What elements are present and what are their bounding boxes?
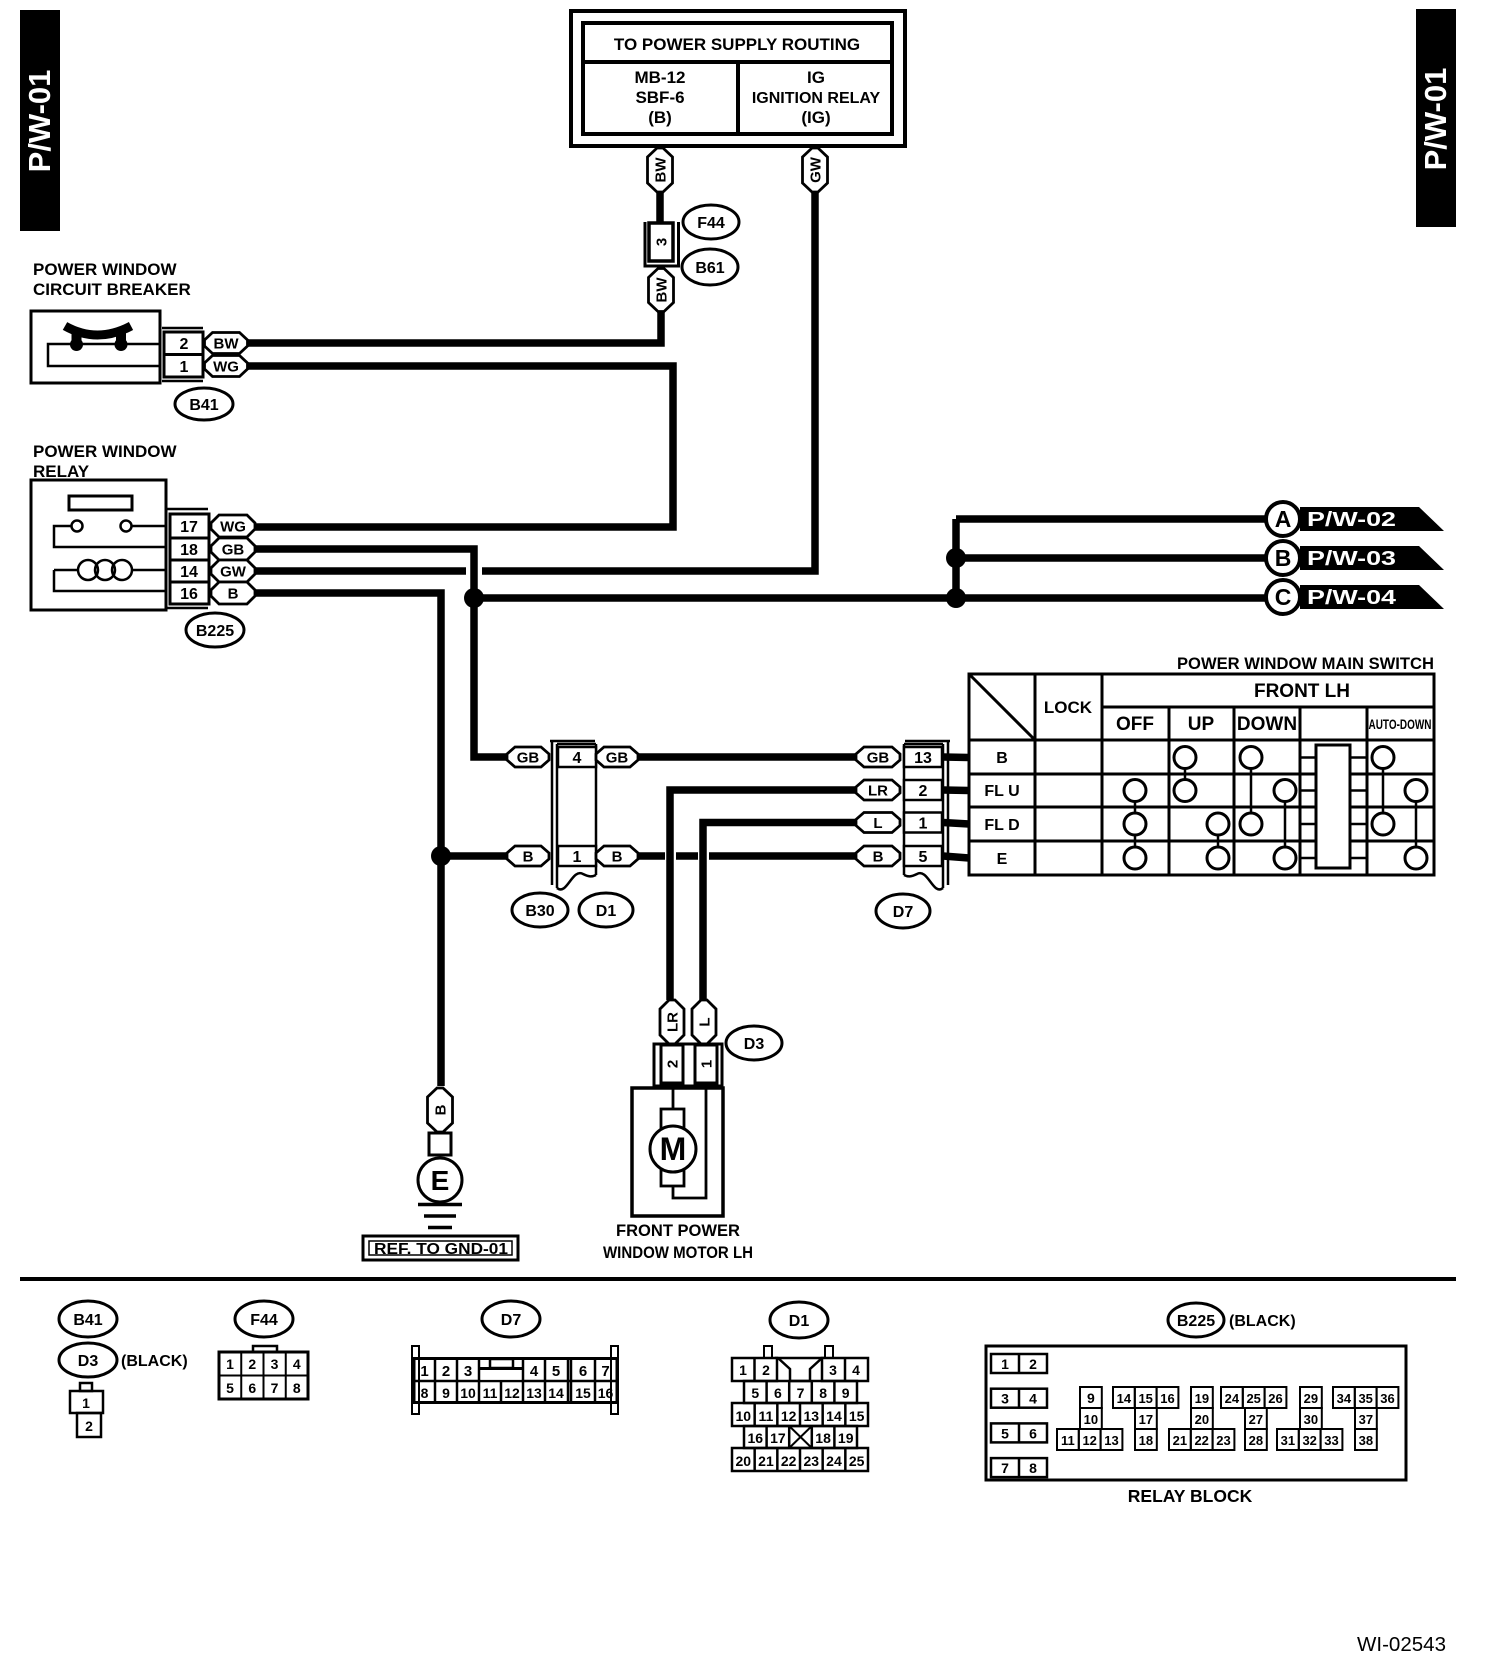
svg-text:P/W-04: P/W-04 bbox=[1307, 587, 1397, 609]
svg-text:D7: D7 bbox=[501, 1312, 522, 1329]
terminal WG relay pin 17 bbox=[211, 515, 255, 537]
svg-text:L: L bbox=[873, 815, 882, 832]
svg-text:7: 7 bbox=[1001, 1460, 1009, 1476]
wire GB branch vertical to banners A and B bbox=[952, 519, 960, 598]
node C to P/W-04 bbox=[1266, 580, 1444, 614]
svg-text:2: 2 bbox=[1029, 1356, 1037, 1372]
svg-text:25: 25 bbox=[849, 1453, 865, 1469]
pinout connector D1 bbox=[732, 1346, 868, 1471]
svg-text:2: 2 bbox=[85, 1418, 93, 1434]
svg-text:1: 1 bbox=[739, 1362, 747, 1378]
svg-text:5: 5 bbox=[919, 849, 928, 866]
svg-text:WINDOW MOTOR LH: WINDOW MOTOR LH bbox=[603, 1243, 753, 1262]
wire stub pin 13 to switch B bbox=[943, 753, 969, 761]
pinout label F44 bbox=[235, 1301, 293, 1337]
switch contact link lines bbox=[1135, 758, 1416, 859]
svg-text:D1: D1 bbox=[789, 1313, 810, 1330]
connector label F44 bbox=[683, 205, 739, 239]
svg-text:P/W-03: P/W-03 bbox=[1307, 548, 1396, 570]
svg-text:14: 14 bbox=[826, 1408, 842, 1424]
svg-text:POWER WINDOW: POWER WINDOW bbox=[33, 442, 177, 461]
terminal LR switch pin 2 bbox=[856, 780, 900, 800]
pinout label B41 bbox=[59, 1301, 117, 1337]
svg-text:SBF-6: SBF-6 bbox=[635, 88, 684, 107]
svg-text:LR: LR bbox=[664, 1012, 681, 1032]
svg-text:11: 11 bbox=[1061, 1433, 1075, 1448]
svg-text:B225: B225 bbox=[196, 623, 234, 640]
connector B30/D1 pin 1 cell bbox=[558, 846, 596, 866]
svg-text:5: 5 bbox=[552, 1363, 560, 1380]
svg-text:26: 26 bbox=[1268, 1391, 1282, 1406]
svg-text:34: 34 bbox=[1337, 1391, 1352, 1406]
connector label B30 bbox=[512, 893, 568, 927]
terminal L motor pin 1 bbox=[692, 1000, 716, 1044]
connector label B41 bbox=[175, 388, 233, 420]
svg-text:8: 8 bbox=[421, 1385, 429, 1401]
svg-text:13: 13 bbox=[1104, 1433, 1118, 1448]
wire B segment from D1 pin 1 bbox=[638, 852, 665, 860]
page label P/W-01 right bbox=[1416, 9, 1456, 227]
terminal BW (supply side) bbox=[648, 148, 673, 192]
svg-text:WG: WG bbox=[220, 518, 246, 535]
fuse 3 (F44/B61) bracket bbox=[645, 222, 679, 266]
svg-text:17: 17 bbox=[770, 1430, 786, 1446]
svg-text:F44: F44 bbox=[250, 1312, 278, 1329]
svg-text:IG: IG bbox=[807, 68, 825, 87]
svg-text:20: 20 bbox=[736, 1453, 752, 1469]
svg-text:4: 4 bbox=[852, 1362, 860, 1378]
terminal WG circuit breaker pin 1 bbox=[205, 356, 248, 377]
svg-text:22: 22 bbox=[781, 1453, 797, 1469]
svg-text:P/W-01: P/W-01 bbox=[22, 70, 57, 173]
terminal B at D1 pin 1 (right) bbox=[596, 846, 638, 866]
svg-text:B: B bbox=[996, 750, 1008, 767]
wire B branch to connector B30 pin 1 bbox=[441, 852, 507, 860]
svg-text:9: 9 bbox=[1087, 1390, 1095, 1406]
svg-text:16: 16 bbox=[1160, 1391, 1174, 1406]
wire BW from fuse to circuit breaker pin 2 bbox=[247, 311, 661, 343]
svg-text:8: 8 bbox=[819, 1385, 827, 1401]
relay connector frame pins 17/18/14/16 bbox=[167, 509, 209, 608]
relay block pinout box bbox=[986, 1346, 1406, 1480]
svg-text:AUTO-DOWN: AUTO-DOWN bbox=[1369, 716, 1432, 732]
svg-text:POWER WINDOW: POWER WINDOW bbox=[33, 260, 177, 279]
power window relay box bbox=[31, 480, 166, 610]
wire GB to banner C P/W-04 bbox=[474, 594, 1266, 602]
terminal BW (below fuse) bbox=[649, 269, 674, 312]
junction banner C bbox=[946, 588, 966, 608]
svg-text:7: 7 bbox=[271, 1380, 279, 1396]
svg-text:2: 2 bbox=[664, 1060, 681, 1068]
svg-text:3: 3 bbox=[1001, 1391, 1009, 1407]
svg-text:12: 12 bbox=[504, 1385, 520, 1401]
svg-text:3: 3 bbox=[464, 1363, 472, 1380]
svg-text:8: 8 bbox=[1029, 1460, 1037, 1476]
svg-text:OFF: OFF bbox=[1116, 714, 1154, 735]
connector label B225 bbox=[186, 613, 244, 647]
wire L from switch pin 1 to motor bbox=[703, 823, 856, 1001]
svg-text:18: 18 bbox=[815, 1430, 831, 1446]
wire LR from switch pin 2 to motor bbox=[670, 790, 856, 1000]
motor connector D3 frame bbox=[654, 1044, 722, 1086]
svg-text:2: 2 bbox=[180, 336, 189, 353]
ground E symbol bbox=[418, 1158, 462, 1228]
wire WG from circuit breaker pin 1 to relay pin 17 bbox=[247, 366, 673, 527]
svg-text:36: 36 bbox=[1380, 1391, 1394, 1406]
svg-text:1: 1 bbox=[698, 1060, 715, 1068]
wire stub pin 2 to switch FL U bbox=[943, 786, 969, 794]
svg-text:6: 6 bbox=[248, 1380, 256, 1396]
svg-text:17: 17 bbox=[180, 519, 198, 536]
pinout connector D3 bbox=[70, 1383, 103, 1437]
svg-text:RELAY: RELAY bbox=[33, 462, 90, 481]
svg-text:GB: GB bbox=[222, 541, 245, 558]
connector label D1 bbox=[579, 893, 633, 927]
front power window motor LH box bbox=[632, 1088, 723, 1216]
svg-text:2: 2 bbox=[248, 1356, 256, 1372]
svg-text:33: 33 bbox=[1324, 1433, 1338, 1448]
connector D7 pin 1 cell bbox=[904, 813, 942, 833]
svg-text:(B): (B) bbox=[648, 108, 672, 127]
inline connector D7 strip bbox=[904, 740, 950, 889]
terminal GB switch pin 13 bbox=[856, 747, 900, 767]
svg-text:L: L bbox=[696, 1017, 713, 1026]
junction B net bbox=[431, 846, 451, 866]
inline connector B30/D1 strip bbox=[550, 740, 596, 889]
svg-text:20: 20 bbox=[1195, 1412, 1209, 1427]
svg-text:3: 3 bbox=[271, 1356, 279, 1372]
svg-text:7: 7 bbox=[601, 1363, 609, 1380]
connector D7 pin 13 cell bbox=[904, 747, 942, 767]
svg-text:B61: B61 bbox=[695, 260, 724, 277]
svg-text:16: 16 bbox=[748, 1430, 764, 1446]
power window main switch table bbox=[969, 674, 1434, 875]
svg-text:F44: F44 bbox=[697, 215, 725, 232]
svg-text:RELAY BLOCK: RELAY BLOCK bbox=[1128, 1486, 1253, 1506]
connector label D7 bbox=[876, 894, 930, 928]
wire GB from relay pin 18 down to connector B30 pin 4 bbox=[255, 549, 507, 757]
svg-text:B: B bbox=[432, 1104, 449, 1115]
terminal L switch pin 1 bbox=[856, 813, 900, 833]
svg-text:B: B bbox=[873, 848, 884, 865]
wire B from relay pin 16 down to ground terminal bbox=[255, 593, 441, 1086]
svg-text:11: 11 bbox=[483, 1385, 498, 1401]
svg-text:15: 15 bbox=[575, 1385, 591, 1401]
svg-text:LR: LR bbox=[868, 782, 888, 799]
svg-text:13: 13 bbox=[914, 750, 932, 767]
svg-text:16: 16 bbox=[598, 1385, 614, 1401]
relay armature bbox=[69, 496, 132, 510]
svg-text:3: 3 bbox=[829, 1362, 837, 1378]
relay coil bbox=[54, 560, 166, 591]
pinout label D3 bbox=[59, 1343, 117, 1377]
motor M internals bbox=[650, 1088, 706, 1198]
wire B segment to switch pin 5 bbox=[709, 852, 856, 860]
svg-text:4: 4 bbox=[1029, 1391, 1037, 1407]
connector D7 pin 2 cell bbox=[904, 780, 942, 800]
svg-text:21: 21 bbox=[758, 1453, 774, 1469]
terminal B ground lead bbox=[428, 1088, 453, 1132]
terminal GW (ignition relay side) bbox=[803, 148, 828, 192]
svg-text:15: 15 bbox=[1138, 1391, 1152, 1406]
svg-text:WI-02543: WI-02543 bbox=[1357, 1634, 1446, 1656]
connector label B61 bbox=[682, 249, 738, 285]
svg-text:13: 13 bbox=[804, 1408, 820, 1424]
terminal B relay pin 16 bbox=[211, 582, 255, 604]
terminal GB at D1 pin 4 (right) bbox=[596, 747, 638, 767]
terminal B at B30 pin 1 (left) bbox=[507, 846, 549, 866]
svg-text:B: B bbox=[228, 585, 239, 602]
svg-text:MB-12: MB-12 bbox=[634, 68, 685, 87]
svg-text:B41: B41 bbox=[189, 397, 218, 414]
svg-text:19: 19 bbox=[838, 1430, 854, 1446]
svg-text:12: 12 bbox=[781, 1408, 797, 1424]
svg-text:B: B bbox=[1275, 545, 1292, 571]
fuse 3 body bbox=[649, 223, 673, 261]
circuit breaker bimetal contact symbol bbox=[48, 326, 160, 366]
svg-text:11: 11 bbox=[759, 1408, 774, 1424]
wire GB branch to banner B P/W-03 bbox=[956, 554, 1266, 562]
svg-text:1: 1 bbox=[82, 1395, 90, 1411]
wire BW from MB-12/SBF-6 to fuse 3 bbox=[656, 192, 664, 224]
svg-text:6: 6 bbox=[1029, 1425, 1037, 1441]
svg-text:(IG): (IG) bbox=[801, 108, 830, 127]
svg-text:5: 5 bbox=[751, 1385, 759, 1401]
switch contacts bbox=[1124, 747, 1427, 870]
svg-text:14: 14 bbox=[180, 564, 198, 581]
svg-text:B225: B225 bbox=[1177, 1313, 1215, 1330]
svg-text:10: 10 bbox=[1084, 1412, 1098, 1427]
svg-text:38: 38 bbox=[1359, 1433, 1373, 1448]
relay block cavity grid bbox=[1057, 1387, 1398, 1450]
wire GB branch to banner A P/W-02 bbox=[956, 515, 1266, 523]
svg-text:29: 29 bbox=[1304, 1391, 1318, 1406]
svg-text:REF. TO GND-01: REF. TO GND-01 bbox=[374, 1241, 508, 1258]
svg-text:LOCK: LOCK bbox=[1044, 698, 1093, 717]
svg-text:E: E bbox=[997, 851, 1008, 868]
wire B segment between crossings bbox=[676, 852, 698, 860]
svg-text:POWER WINDOW MAIN SWITCH: POWER WINDOW MAIN SWITCH bbox=[1177, 654, 1434, 673]
wire stub pin 5 to switch E bbox=[943, 856, 969, 858]
svg-text:18: 18 bbox=[180, 542, 198, 559]
svg-text:2: 2 bbox=[442, 1363, 450, 1380]
svg-text:5: 5 bbox=[226, 1380, 234, 1396]
svg-text:12: 12 bbox=[1082, 1433, 1096, 1448]
terminal LR motor pin 2 bbox=[660, 1000, 684, 1044]
pinout connector D7 bbox=[412, 1346, 618, 1414]
svg-text:10: 10 bbox=[736, 1408, 752, 1424]
svg-text:1: 1 bbox=[226, 1356, 234, 1372]
svg-text:D3: D3 bbox=[744, 1036, 765, 1053]
svg-text:37: 37 bbox=[1359, 1412, 1373, 1427]
svg-text:M: M bbox=[660, 1131, 687, 1167]
svg-text:(BLACK): (BLACK) bbox=[1229, 1313, 1296, 1330]
svg-text:1: 1 bbox=[420, 1363, 428, 1380]
svg-text:2: 2 bbox=[919, 783, 928, 800]
pinout label D7 bbox=[482, 1301, 540, 1337]
wire GW into relay pin 14 bbox=[255, 567, 466, 575]
svg-text:16: 16 bbox=[180, 586, 198, 603]
svg-text:B30: B30 bbox=[525, 903, 554, 920]
svg-text:IGNITION RELAY: IGNITION RELAY bbox=[752, 90, 881, 107]
svg-text:4: 4 bbox=[530, 1363, 539, 1380]
svg-text:P/W-02: P/W-02 bbox=[1307, 509, 1396, 531]
node B to P/W-03 bbox=[1266, 541, 1444, 575]
svg-text:WG: WG bbox=[213, 358, 239, 375]
svg-text:32: 32 bbox=[1302, 1433, 1316, 1448]
svg-text:10: 10 bbox=[460, 1385, 476, 1401]
junction GB net bbox=[464, 588, 484, 608]
svg-text:23: 23 bbox=[804, 1453, 820, 1469]
svg-text:8: 8 bbox=[293, 1380, 301, 1396]
svg-text:1: 1 bbox=[180, 359, 189, 376]
svg-text:9: 9 bbox=[442, 1385, 450, 1401]
svg-text:35: 35 bbox=[1358, 1391, 1372, 1406]
svg-text:FL D: FL D bbox=[984, 817, 1019, 834]
svg-text:5: 5 bbox=[1001, 1425, 1009, 1441]
svg-text:6: 6 bbox=[774, 1385, 782, 1401]
svg-text:28: 28 bbox=[1249, 1433, 1263, 1448]
relay contact circles bbox=[54, 521, 166, 548]
svg-text:7: 7 bbox=[797, 1385, 805, 1401]
svg-text:BW: BW bbox=[652, 157, 669, 183]
svg-text:B41: B41 bbox=[73, 1312, 102, 1329]
svg-text:GW: GW bbox=[807, 156, 824, 183]
svg-text:FL U: FL U bbox=[984, 783, 1019, 800]
svg-text:24: 24 bbox=[1225, 1391, 1240, 1406]
svg-text:B: B bbox=[523, 848, 534, 865]
svg-text:FRONT LH: FRONT LH bbox=[1254, 681, 1350, 702]
pinout label D1 bbox=[770, 1302, 828, 1338]
svg-text:UP: UP bbox=[1188, 714, 1215, 735]
svg-text:31: 31 bbox=[1281, 1433, 1295, 1448]
circuit breaker connector frame pins 2/1 bbox=[162, 328, 203, 381]
svg-text:E: E bbox=[431, 1165, 450, 1196]
svg-text:30: 30 bbox=[1304, 1412, 1318, 1427]
svg-text:B: B bbox=[612, 848, 623, 865]
ground connector box bbox=[429, 1133, 451, 1155]
svg-text:1: 1 bbox=[1001, 1356, 1009, 1372]
svg-text:(BLACK): (BLACK) bbox=[121, 1353, 188, 1370]
svg-text:C: C bbox=[1275, 584, 1292, 610]
ref to gnd-01 box bbox=[363, 1236, 518, 1260]
svg-text:GB: GB bbox=[517, 749, 540, 766]
circuit breaker B41 box bbox=[31, 311, 160, 383]
node A to P/W-02 bbox=[1266, 502, 1444, 536]
svg-text:13: 13 bbox=[526, 1385, 542, 1401]
power supply routing box bbox=[571, 11, 905, 146]
svg-text:BW: BW bbox=[653, 277, 670, 303]
terminal BW circuit breaker pin 2 bbox=[205, 333, 248, 354]
wire GB from D1 pin 4 to switch pin 13 bbox=[638, 753, 856, 761]
front power window motor LH label bbox=[603, 1221, 753, 1262]
svg-text:15: 15 bbox=[849, 1408, 865, 1424]
svg-text:A: A bbox=[1275, 506, 1292, 532]
svg-text:2: 2 bbox=[762, 1362, 770, 1378]
svg-text:D1: D1 bbox=[596, 903, 617, 920]
separator line bbox=[20, 1277, 1456, 1281]
svg-text:23: 23 bbox=[1216, 1433, 1230, 1448]
power window relay label bbox=[33, 442, 177, 481]
pinout label B225 bbox=[1168, 1303, 1224, 1337]
svg-text:18: 18 bbox=[1139, 1433, 1153, 1448]
svg-text:4: 4 bbox=[293, 1356, 301, 1372]
svg-text:19: 19 bbox=[1195, 1391, 1209, 1406]
svg-text:D7: D7 bbox=[893, 904, 914, 921]
svg-text:22: 22 bbox=[1194, 1433, 1208, 1448]
svg-text:14: 14 bbox=[548, 1385, 564, 1401]
svg-text:14: 14 bbox=[1117, 1391, 1132, 1406]
junction banner B bbox=[946, 548, 966, 568]
svg-text:DOWN: DOWN bbox=[1237, 714, 1297, 735]
svg-text:1: 1 bbox=[573, 849, 582, 866]
svg-text:GB: GB bbox=[867, 749, 890, 766]
svg-text:27: 27 bbox=[1249, 1412, 1263, 1427]
svg-text:4: 4 bbox=[573, 750, 582, 767]
switch mechanical link bar bbox=[1300, 745, 1367, 868]
svg-text:P/W-01: P/W-01 bbox=[1418, 68, 1453, 171]
svg-text:BW: BW bbox=[214, 335, 240, 352]
wire stub pin 1 to switch FL D bbox=[943, 823, 969, 825]
svg-text:D3: D3 bbox=[78, 1353, 99, 1370]
svg-text:6: 6 bbox=[579, 1363, 587, 1380]
connector label D3 bbox=[726, 1026, 782, 1060]
connector B30/D1 pin 4 cell bbox=[558, 747, 596, 767]
connector D7 pin 5 cell bbox=[904, 846, 942, 866]
svg-text:FRONT POWER: FRONT POWER bbox=[616, 1221, 740, 1240]
svg-text:17: 17 bbox=[1139, 1412, 1153, 1427]
svg-text:1: 1 bbox=[919, 815, 928, 832]
svg-text:GB: GB bbox=[606, 749, 629, 766]
svg-text:GW: GW bbox=[220, 563, 247, 580]
terminal GB at B30 pin 4 (left) bbox=[507, 747, 549, 767]
svg-text:21: 21 bbox=[1173, 1433, 1187, 1448]
terminal B switch pin 5 bbox=[856, 846, 900, 866]
page label P/W-01 left bbox=[20, 10, 60, 231]
power window circuit breaker label bbox=[33, 260, 191, 299]
svg-text:25: 25 bbox=[1246, 1391, 1260, 1406]
terminal GW relay pin 14 bbox=[211, 560, 255, 582]
svg-text:9: 9 bbox=[842, 1385, 850, 1401]
svg-text:24: 24 bbox=[826, 1453, 842, 1469]
wire GW vertical from ignition relay bbox=[482, 192, 815, 571]
svg-text:TO POWER SUPPLY ROUTING: TO POWER SUPPLY ROUTING bbox=[614, 35, 860, 54]
pinout connector F44 bbox=[219, 1346, 308, 1399]
svg-text:3: 3 bbox=[653, 238, 670, 246]
svg-text:CIRCUIT BREAKER: CIRCUIT BREAKER bbox=[33, 280, 191, 299]
terminal GB relay pin 18 bbox=[211, 538, 255, 560]
